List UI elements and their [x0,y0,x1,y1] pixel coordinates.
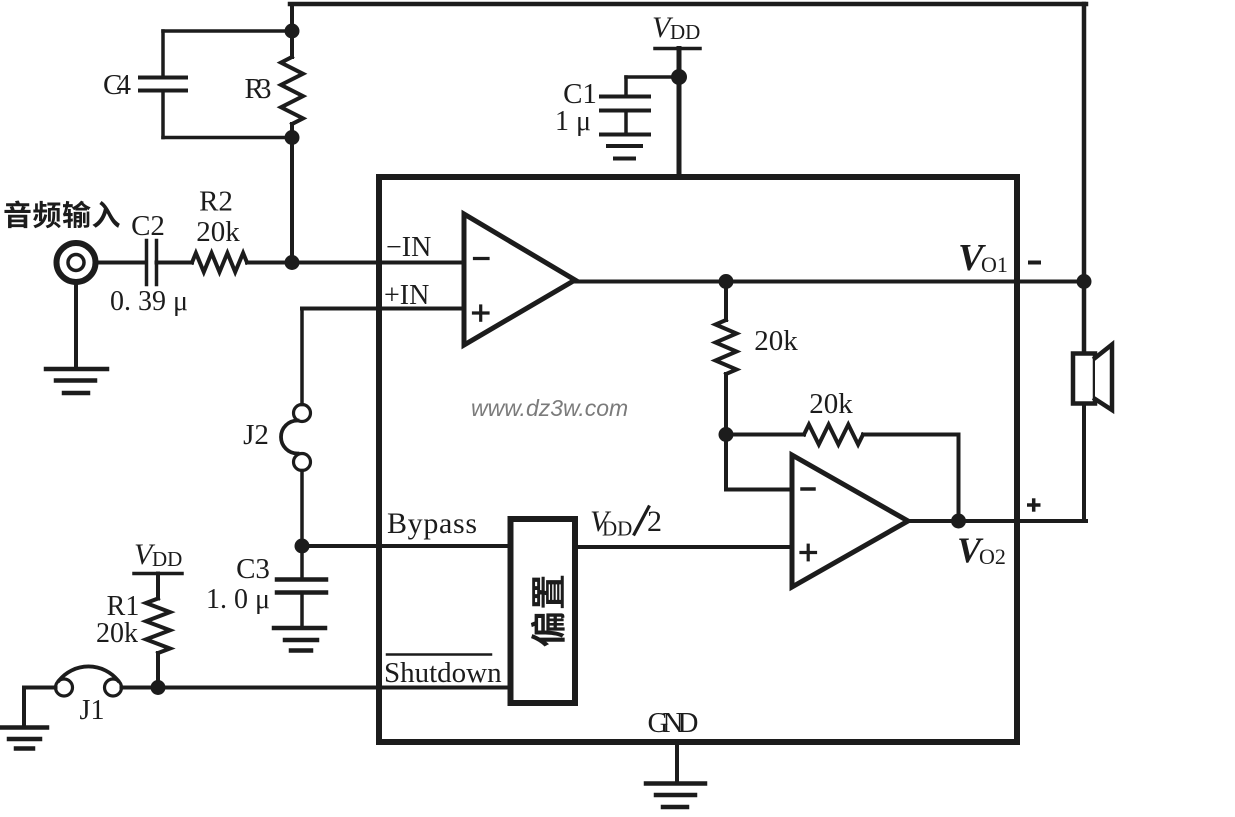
op-amp U1B plus pin mark [801,551,816,554]
wire +IN horizontal [302,307,464,311]
label audio input (CJK) [4,201,30,229]
wire feedback down to Vo2 [957,435,961,522]
ground J1 [2,725,47,730]
power Vdd top bar [655,47,700,51]
wire C1 stem lower [624,111,628,135]
wire Bypass [302,544,508,548]
wire R3 top stub [290,4,294,57]
svg-text:C2: C2 [131,210,165,242]
resistor R2 [192,253,247,272]
wire Vo2 output [908,519,959,523]
connector audio input jack [57,243,96,282]
svg-text:DD: DD [152,547,182,571]
wire Vdd stem to box [677,49,682,178]
svg-text:20k: 20k [96,618,138,649]
svg-text:R3: R3 [245,73,272,105]
svg-text:C3: C3 [236,553,270,585]
ground GND main [646,781,705,786]
svg-text:2: 2 [647,505,662,538]
wire input jack to C2 [98,261,146,265]
wire 20k feedback top stub [724,282,728,321]
svg-text:J2: J2 [243,419,269,451]
wire C4 left upper [161,31,165,78]
svg-text:O1: O1 [981,252,1008,277]
capacitor C1 [601,95,649,99]
wire R2 to -IN [247,261,464,265]
wire R3 bottom to input node [290,124,294,263]
svg-text:O2: O2 [979,544,1006,569]
wire op2 minus input [724,435,728,490]
power Vdd bar R1 [134,572,182,576]
node Vo1 speaker junction [1077,274,1092,289]
svg-text:J1: J1 [80,695,105,726]
op-amp U1B minus pin mark [802,487,814,491]
junction node Vdd C1 [671,69,687,85]
wire feedback right [863,433,959,437]
svg-text:Bypass: Bypass [387,507,477,540]
wire top rail [290,2,1086,7]
svg-text:R2: R2 [199,186,233,218]
wire feedback left stub [726,433,804,437]
resistor R1 [146,599,170,654]
resistor 20k vertical [716,320,737,374]
junction node R3 bottom [285,130,300,145]
svg-text:1. 0 μ: 1. 0 μ [206,584,270,615]
block bias (pian zhi) [511,519,576,703]
wire Vo2 to speaker rail [959,519,1087,523]
wire 20k to node B [724,374,728,435]
svg-text:DD: DD [602,517,632,541]
svg-text:+IN: +IN [384,280,429,311]
label bias block (CJK rotated) [531,576,565,647]
op-amp U1B [792,455,908,587]
svg-text:20k: 20k [754,325,798,357]
svg-text:DD: DD [670,20,700,44]
wire Vo1 output [572,280,1084,284]
jumper J1 [56,679,73,696]
node Vo2 junction [951,514,966,529]
ground C3 [274,626,325,631]
wire C3 stem lower [300,593,304,629]
wire right rail upper [1082,4,1087,354]
resistor R3 [281,57,303,124]
svg-text:1 μ: 1 μ [555,106,591,137]
capacitor C3 [277,577,326,582]
wire R1 stem [156,574,160,599]
ground C1 [601,133,649,137]
svg-text:20k: 20k [809,388,853,420]
node shutdown junction [151,680,166,695]
junction node input [285,255,300,270]
speaker LS1 [1073,354,1095,404]
wire C2 to R2 [157,261,193,265]
ground input jack [46,367,107,372]
node B junction [719,427,734,442]
overline Shutdown [387,653,491,656]
resistor 20k feedback [804,425,863,445]
junction node R3 top [285,24,300,39]
svg-text:C4: C4 [103,69,132,101]
label plus polarity [1027,503,1041,507]
jumper J2 [294,405,311,422]
wire J2 to bypass node [300,471,304,547]
label minus polarity [1028,261,1041,265]
wire C4 bottom [163,136,292,140]
svg-text:0. 39 μ: 0. 39 μ [110,286,188,317]
wire +IN down to J2 [300,309,304,405]
wire R1 to node [156,653,160,688]
junction node bypass [295,539,310,554]
wire GND stem [675,742,679,784]
IC box U1 [379,177,1017,742]
svg-text:20k: 20k [196,216,240,248]
wire C4 left lower [161,91,165,138]
wire C1 branch [626,75,679,79]
wire C4 top [163,29,292,33]
op-amp U1A plus pin mark [474,311,489,314]
wire right rail lower (speaker to Vo2) [1082,402,1086,521]
wire Shutdown [122,686,509,690]
op-amp U1A [464,214,575,345]
capacitor C2 [145,241,149,285]
node output1 junction [719,274,734,289]
svg-text:Shutdown: Shutdown [384,657,502,689]
svg-text:−IN: −IN [386,232,431,263]
wire C3 stem upper [300,546,304,580]
op-amp U1A minus pin mark [475,257,489,260]
svg-text:GND: GND [648,707,699,739]
wire J1 to ground [24,686,56,690]
capacitor C4 [140,76,186,80]
svg-text:www.dz3w.com: www.dz3w.com [471,395,628,421]
wire jack ground stem [74,284,78,369]
wire Vdd/2 to op2 plus [578,545,792,549]
